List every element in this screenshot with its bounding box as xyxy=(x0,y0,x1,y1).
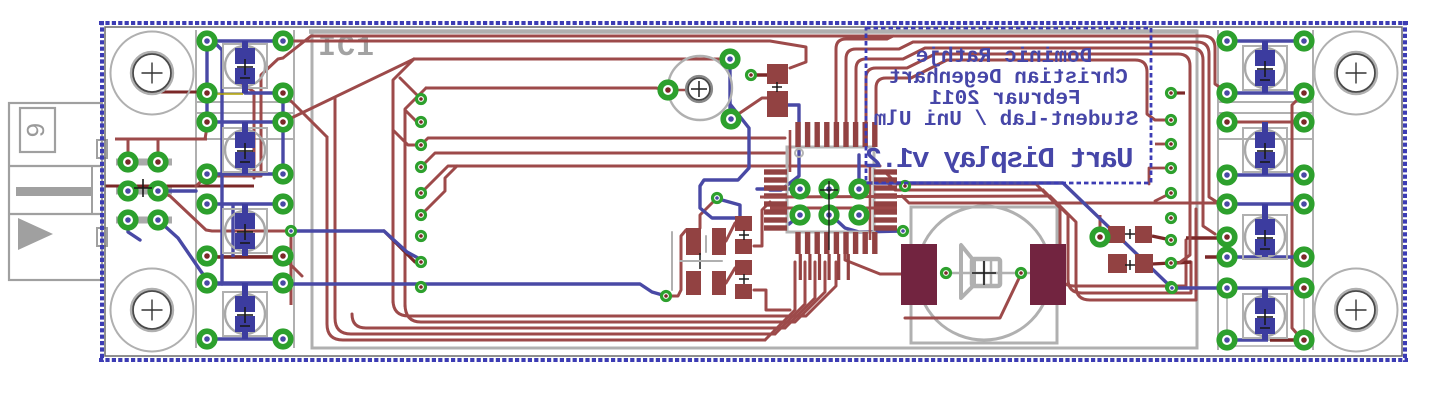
svg-text:Student-Lab / Uni Ulm: Student-Lab / Uni Ulm xyxy=(874,109,1139,132)
svg-text:Uart Display v1.2: Uart Display v1.2 xyxy=(866,143,1133,176)
svg-text:Februar 2011: Februar 2011 xyxy=(929,88,1080,111)
svg-text:9: 9 xyxy=(22,122,52,138)
svg-text:Dominic Rathje: Dominic Rathje xyxy=(916,46,1092,69)
svg-text:Christian Degenhart: Christian Degenhart xyxy=(888,67,1127,90)
